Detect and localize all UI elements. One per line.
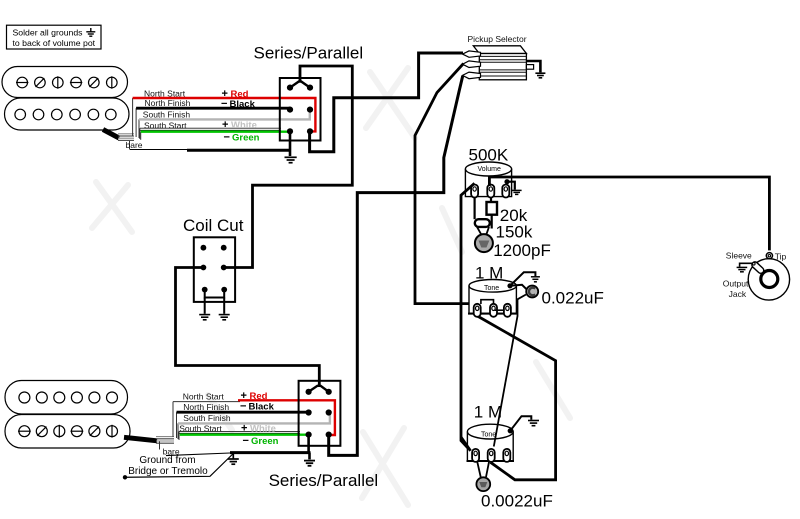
wire volume left lug down to tone2 left lug xyxy=(461,183,475,451)
coil cut switch xyxy=(183,216,244,302)
svg-text:North Start: North Start xyxy=(183,392,225,402)
svg-text:Series/Parallel: Series/Parallel xyxy=(269,471,379,490)
output jack xyxy=(748,259,789,300)
wire black (H2) xyxy=(177,411,309,414)
ground (selector) xyxy=(535,73,545,78)
tone2 lug 1 xyxy=(472,449,479,462)
ground (S2) xyxy=(304,461,315,466)
selector lug 1 xyxy=(463,51,481,57)
selector lug 3 xyxy=(463,72,481,79)
ground (tone1) xyxy=(531,277,540,282)
svg-text:Red: Red xyxy=(250,391,268,402)
svg-text:South Finish: South Finish xyxy=(183,413,231,423)
wire coil-cut left-middle to S2 top jumper xyxy=(176,268,320,386)
ground (jack) xyxy=(737,267,748,271)
svg-text:Black: Black xyxy=(230,99,256,110)
series/parallel switch S1 xyxy=(254,44,364,141)
wire red (H2) xyxy=(238,400,335,435)
svg-text:bare: bare xyxy=(126,140,143,150)
volume lug 3 xyxy=(502,185,509,198)
note box xyxy=(7,25,102,49)
tone1 casing dot xyxy=(507,283,512,288)
ground (S1) xyxy=(285,157,297,162)
ground (bare bus mid) xyxy=(228,453,239,465)
tone pot 1 (1M) xyxy=(468,264,517,314)
svg-text:South Start: South Start xyxy=(144,120,187,130)
svg-text:White: White xyxy=(250,424,276,435)
wire coil-cut right-middle to S1 top jumper xyxy=(224,66,353,268)
svg-text:Tone: Tone xyxy=(484,285,499,292)
ground (tone2) xyxy=(528,421,539,426)
WIRES-LONG xyxy=(176,53,556,480)
svg-text:Tone: Tone xyxy=(481,432,496,439)
wire white outline (H2) xyxy=(179,431,300,433)
volume pot 500K xyxy=(465,146,511,197)
svg-text:Ground from: Ground from xyxy=(139,455,195,466)
wire bridge ground lead xyxy=(123,454,234,480)
selector lug 2 xyxy=(463,61,481,68)
resistor 20k xyxy=(487,198,498,229)
wire S1 ground xyxy=(289,131,292,156)
svg-text:Pickup Selector: Pickup Selector xyxy=(468,34,527,44)
wire white outline (H1 south start) xyxy=(140,128,281,130)
wire selector lug2 diag1 down to tone1 left lug xyxy=(415,64,472,304)
tone1 lug 1 xyxy=(474,304,481,317)
svg-text:North Finish: North Finish xyxy=(183,402,229,412)
svg-text:South Start: South Start xyxy=(179,424,222,434)
wire bare (H1) xyxy=(130,149,187,151)
capacitor 0.022uF xyxy=(510,285,538,298)
wire tone2 ground xyxy=(510,416,531,431)
svg-text:Output: Output xyxy=(723,278,749,288)
H2 screw poles xyxy=(18,425,118,438)
wire volume wiper to jack tip xyxy=(489,177,769,250)
svg-text:Black: Black xyxy=(249,401,275,412)
tone pot 2 (1M) xyxy=(467,403,515,462)
series/parallel switch S2 xyxy=(269,381,379,490)
wire bare (H2) xyxy=(166,453,230,456)
ground (volume) xyxy=(512,190,522,194)
svg-text:−: − xyxy=(243,435,249,447)
wire green (H2) xyxy=(180,434,309,436)
volume casing dot xyxy=(504,179,509,184)
tone1 wiper-to-lug1 bracket xyxy=(481,300,494,304)
svg-text:Green: Green xyxy=(251,436,279,447)
capacitor 1200pF xyxy=(475,227,493,252)
tone1 lug 3 xyxy=(504,304,511,317)
wire S2 ground xyxy=(307,435,310,460)
wire black (H1 north finish) xyxy=(136,107,290,110)
wire selector ground xyxy=(526,61,540,72)
svg-text:1 M: 1 M xyxy=(474,403,502,422)
wire S1 output to selector lug1 xyxy=(310,53,463,152)
H2 lead staircase xyxy=(160,402,180,450)
svg-text:Coil Cut: Coil Cut xyxy=(183,216,244,235)
wire volume casing ground xyxy=(507,182,515,190)
capacitor 0.0022uF xyxy=(476,462,490,491)
ground (coil cut left) xyxy=(199,315,210,320)
wire gray (H1 south finish) xyxy=(139,110,310,119)
wire coil-cut grounds xyxy=(205,298,225,314)
volume lug 1 xyxy=(471,185,478,198)
tone1 lug 2 xyxy=(490,304,497,317)
svg-text:Volume: Volume xyxy=(478,166,501,173)
svg-text:150k: 150k xyxy=(496,223,533,242)
H1 lead staircase xyxy=(130,98,141,150)
resistor 150k xyxy=(475,198,490,227)
ground (coil cut right) xyxy=(219,315,230,320)
wire jack sleeve ground xyxy=(740,263,753,267)
H1 screw poles xyxy=(16,76,117,88)
H2 plain poles xyxy=(19,392,118,403)
svg-text:+: + xyxy=(222,119,228,131)
svg-text:Series/Parallel: Series/Parallel xyxy=(254,44,364,63)
svg-text:South Finish: South Finish xyxy=(143,110,191,120)
svg-text:−: − xyxy=(240,400,246,412)
svg-text:−: − xyxy=(221,98,227,110)
humbucker H1 (neck) xyxy=(2,67,129,131)
tone2 casing dot xyxy=(508,428,513,433)
tone2 lug 3 xyxy=(503,449,510,462)
volume lug 2 xyxy=(487,185,494,198)
svg-text:Solder all grounds: Solder all grounds xyxy=(13,28,84,38)
wire red (H1 north start) xyxy=(133,98,316,131)
tone2 lug 2 xyxy=(488,449,495,462)
wire tone1 left lug to tone2 middle lug (via right loop) xyxy=(477,316,556,480)
jack tip lug xyxy=(766,253,772,259)
wire tone1 ground xyxy=(510,272,535,286)
H2 thin leads xyxy=(173,401,240,403)
H1 cable bundle xyxy=(103,130,134,141)
svg-text:North Start: North Start xyxy=(144,88,186,98)
selector plunger xyxy=(526,65,533,70)
wire 0.022 cap to tone2 wiper (upper) xyxy=(506,295,527,383)
svg-text:1200pF: 1200pF xyxy=(493,241,551,260)
ground (in note box) xyxy=(86,28,95,36)
svg-text:Sleeve: Sleeve xyxy=(726,250,752,260)
svg-text:Bridge or Tremolo: Bridge or Tremolo xyxy=(128,466,208,477)
svg-text:to back of volume pot: to back of volume pot xyxy=(13,38,96,48)
wire gray (H2) xyxy=(178,413,330,424)
jack sleeve lug xyxy=(751,261,765,275)
tone1 lug2-lug3 jumper xyxy=(495,309,505,311)
svg-text:−: − xyxy=(224,131,230,143)
svg-text:Tip: Tip xyxy=(775,251,787,261)
H1 plain poles xyxy=(15,109,116,120)
wire tone2 left lug tail xyxy=(461,437,471,451)
svg-text:+: + xyxy=(241,423,247,435)
H2 cable bundle xyxy=(124,437,174,444)
svg-text:White: White xyxy=(231,120,257,131)
svg-text:Green: Green xyxy=(232,132,260,143)
wire green (H1 south start neg) xyxy=(141,130,290,132)
wire 0.022 cap to tone2 wiper (lower) xyxy=(494,382,506,447)
wire S2 output up to selector lug3 via diag2 xyxy=(329,76,463,455)
humbucker H2 (bridge) xyxy=(5,381,130,449)
svg-text:Jack: Jack xyxy=(729,289,747,299)
svg-text:0.0022uF: 0.0022uF xyxy=(481,491,553,510)
pickup selector xyxy=(468,34,527,80)
svg-text:0.022uF: 0.022uF xyxy=(542,289,604,308)
svg-text:North Finish: North Finish xyxy=(145,98,191,108)
